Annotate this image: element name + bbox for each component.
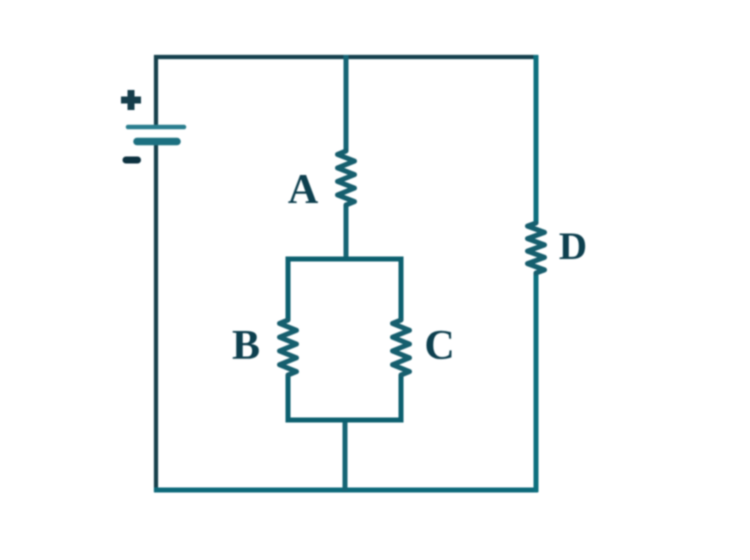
wire left lower (battery - side) [154,141,158,492]
box right edge lower [399,375,404,422]
wire right lower [534,273,539,492]
box around B C (top edge) [286,257,404,262]
wire top [154,55,538,59]
resistor B [280,320,297,375]
wire middle branch lower (A to box) [344,205,349,261]
wire right upper [534,55,539,223]
battery + sign [121,90,141,110]
box right edge upper [399,257,404,320]
box left edge lower [286,375,291,422]
svg-text:D: D [559,225,587,268]
resistor A [338,151,355,205]
wire stub box bottom to bottom wire [343,418,348,491]
battery V1 plate long (+) [128,125,184,130]
svg-text:B: B [232,323,260,369]
resistor C [393,320,410,375]
box around B C (bottom edge) [286,418,404,423]
svg-text:C: C [424,323,454,369]
wire left upper (battery + side) [154,55,158,127]
box left edge upper [286,257,291,320]
battery V1 plate short (-) [137,138,177,146]
svg-text:A: A [288,167,319,213]
wire middle branch upper [344,55,349,151]
resistor D [528,223,545,273]
wire bottom [154,488,538,493]
battery - sign [126,157,138,164]
